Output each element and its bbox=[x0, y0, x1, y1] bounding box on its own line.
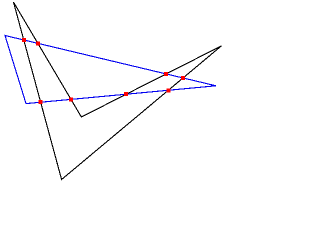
red point 3 bbox=[39, 100, 43, 104]
red point 1 bbox=[22, 38, 26, 42]
red point 6 bbox=[181, 76, 185, 80]
red point 7 bbox=[166, 88, 170, 92]
blue triangle bbox=[5, 36, 216, 104]
red point 2 bbox=[36, 41, 40, 45]
red point 4 bbox=[124, 92, 128, 96]
red point 8 bbox=[69, 97, 73, 101]
red point 5 bbox=[164, 72, 168, 76]
black quadrilateral bbox=[14, 2, 222, 179]
